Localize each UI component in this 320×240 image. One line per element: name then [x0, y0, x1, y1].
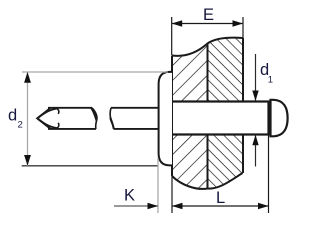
mandrel tip facet upper	[38, 109, 57, 119]
svg-text:2: 2	[18, 120, 23, 131]
dim d2 bottom extension line	[22, 165, 158, 167]
dim E line	[172, 23, 243, 25]
svg-text:K: K	[124, 187, 135, 205]
dim L arrow left	[172, 203, 183, 209]
mandrel tip cone	[37, 108, 50, 129]
plate top break edge	[172, 38, 243, 56]
svg-text:E: E	[203, 6, 214, 24]
dim d1 arrow down	[252, 91, 258, 102]
plate joint line	[207, 44, 209, 189]
dim K extension line	[157, 158, 159, 213]
svg-text:1: 1	[268, 75, 273, 86]
dim d2 arrow down	[24, 155, 31, 166]
plate bottom break edge left	[172, 176, 208, 189]
plate right face	[242, 38, 244, 173]
mandrel tip facet lower	[38, 119, 57, 129]
break flag 2	[110, 117, 115, 128]
dim d2 line	[27, 72, 29, 166]
dim L line	[172, 205, 269, 207]
mandrel head	[271, 100, 288, 137]
dim K arrow right	[148, 203, 159, 209]
dim E extension right	[242, 17, 244, 38]
dim L extension right	[268, 135, 270, 214]
dim d1 lower line	[255, 135, 257, 167]
dim L extension left	[171, 176, 173, 213]
dim L arrow right	[258, 203, 269, 209]
dim d1 upper line	[255, 54, 257, 101]
break line 2	[110, 108, 113, 129]
plate right (hatched section)	[208, 38, 244, 189]
dim E arrow left	[172, 20, 183, 26]
rivet flange head	[159, 72, 172, 165]
break flag 1	[91, 108, 97, 121]
svg-text:d: d	[8, 107, 17, 125]
mandrel stem segment right	[111, 108, 158, 129]
dim d2 top extension line	[22, 71, 168, 73]
plate face left (rivet hole face)	[171, 56, 173, 177]
rivet body tube	[172, 102, 269, 135]
dim K line	[114, 205, 158, 207]
plate bottom break edge right	[208, 173, 243, 189]
dim E extension left	[171, 17, 173, 55]
plate left (hatched section)	[172, 44, 208, 189]
mandrel stem segment left	[48, 108, 96, 129]
dim d2 arrow up	[24, 72, 31, 83]
svg-text:L: L	[216, 189, 225, 207]
break line 1	[92, 108, 97, 129]
dim d1 arrow up	[252, 135, 258, 146]
dim E arrow right	[233, 20, 244, 26]
